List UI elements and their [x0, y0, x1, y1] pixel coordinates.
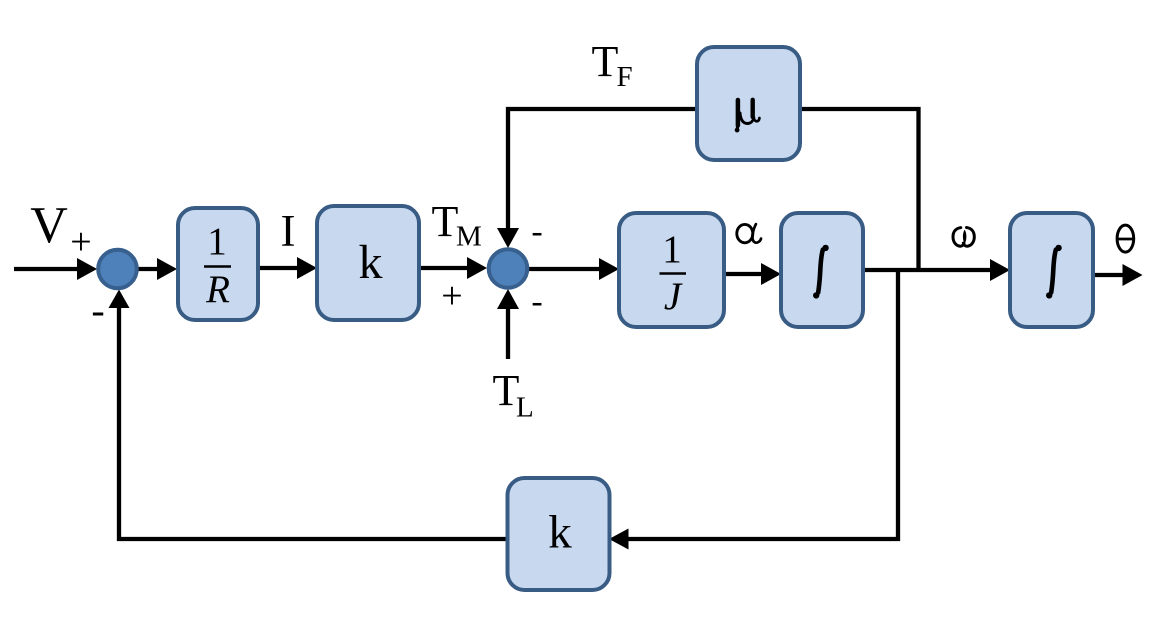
svg-text:L: L [516, 392, 534, 424]
svg-text:k: k [359, 236, 383, 289]
svg-text:-: - [531, 213, 542, 250]
svg-text:R: R [205, 268, 230, 311]
svg-text:F: F [617, 61, 633, 93]
svg-text:+: + [441, 275, 462, 317]
svg-text:J: J [664, 275, 683, 318]
svg-text:-: - [531, 283, 542, 320]
svg-text:-: - [91, 288, 104, 333]
svg-text:M: M [456, 221, 482, 253]
svg-text:T: T [432, 197, 459, 246]
svg-text:k: k [548, 507, 572, 559]
svg-text:+: + [70, 221, 91, 263]
svg-text:1: 1 [662, 228, 682, 271]
svg-text:V: V [30, 197, 68, 254]
svg-text:I: I [281, 206, 296, 256]
svg-text:1: 1 [207, 220, 227, 263]
svg-text:T: T [592, 37, 619, 86]
